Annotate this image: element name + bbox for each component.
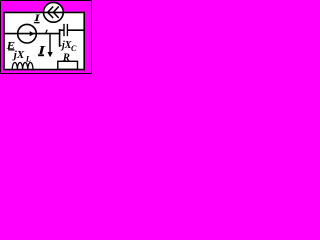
- svg-text:jX: jX: [12, 49, 25, 61]
- svg-text:-jX: -jX: [59, 40, 72, 51]
- svg-text:R: R: [62, 53, 70, 64]
- svg-text:L: L: [25, 53, 31, 63]
- svg-text:C: C: [71, 44, 77, 53]
